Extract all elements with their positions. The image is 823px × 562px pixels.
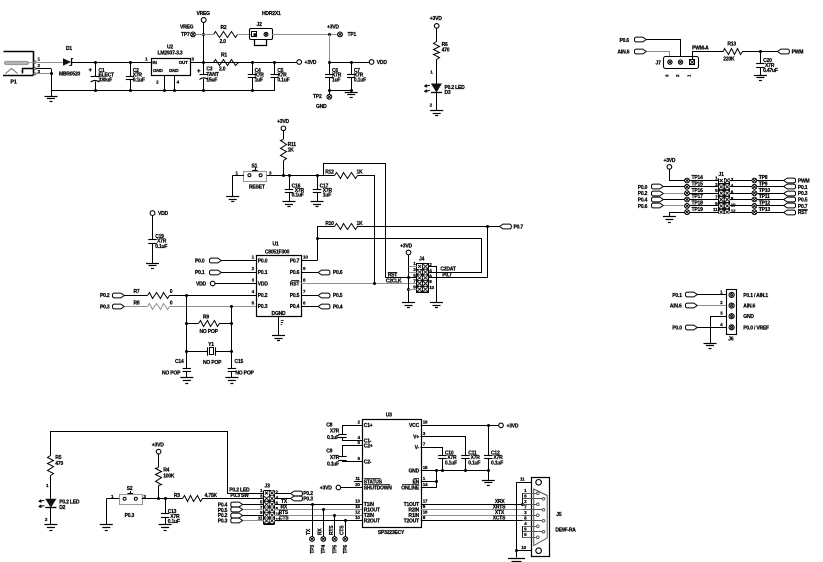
ground symbol D2 (44, 524, 57, 526)
svg-text:1uF: 1uF (323, 193, 331, 199)
svg-text:J5: J5 (556, 512, 562, 518)
svg-text:P0.1 / AIN.1: P0.1 / AIN.1 (743, 293, 768, 299)
svg-text:TP5: TP5 (332, 545, 338, 554)
capacitor C4 X7R 1uF (248, 62, 265, 90)
svg-text:P1: P1 (10, 80, 16, 86)
svg-text:0.1uF: 0.1uF (327, 435, 339, 441)
svg-text:J6: J6 (728, 337, 734, 343)
svg-text:D3: D3 (445, 90, 451, 96)
terminal P0.0 to J6 (672, 325, 726, 331)
node VDD to U1 pin3 (196, 281, 256, 287)
svg-text:J7: J7 (656, 61, 662, 67)
terminal block J6 (720, 289, 769, 342)
svg-text:TP1: TP1 (348, 32, 357, 38)
wire U3 V+ to C11 (421, 437, 466, 456)
capacitor C2 X7R 0.1uF (126, 62, 145, 90)
resistor R4 100K (156, 467, 175, 499)
wire CTS row J3 to U3 R2OUT (275, 516, 363, 523)
svg-text:0: 0 (170, 301, 173, 307)
svg-text:+3VD: +3VD (400, 244, 412, 250)
terminal P0.5 to J3 pin7 (218, 507, 264, 514)
svg-text:+3VD: +3VD (152, 442, 164, 448)
ground symbol under C7 (345, 92, 358, 94)
svg-text:X7R: X7R (330, 455, 340, 461)
ground rail of power section (51, 89, 275, 92)
terminal P0.1 to U1 pin2 (195, 270, 256, 276)
wire U3 GND rail (421, 469, 490, 472)
wire XTX row R1IN to J5 pin3 (421, 510, 537, 516)
svg-text:P0.4: P0.4 (333, 304, 343, 310)
terminal P0.3 from J3 pin4 (275, 496, 314, 502)
svg-text:C8051F300: C8051F300 (265, 249, 290, 255)
svg-text:TP6: TP6 (343, 545, 349, 554)
node +3VD for J4 (400, 244, 412, 303)
connector J5 DE9F-RA (532, 478, 577, 557)
svg-text:P0.0: P0.0 (672, 325, 682, 331)
svg-text:SHUTDOWN: SHUTDOWN (364, 485, 392, 491)
ground symbol J4 left (402, 302, 415, 304)
ground symbol S1 (226, 196, 239, 198)
svg-text:GND: GND (408, 469, 419, 475)
ground symbol D3 (430, 110, 443, 112)
wire J4 pin1 pin3 pin9 stubs (409, 267, 417, 290)
svg-text:RST: RST (798, 210, 808, 216)
test points TP14-TP19 (685, 175, 719, 215)
header J4 2x5 (413, 257, 434, 293)
svg-text:P0.7: P0.7 (290, 258, 300, 264)
svg-text:0.1uF: 0.1uF (491, 460, 503, 466)
svg-text:1uF: 1uF (332, 78, 340, 84)
svg-text:TP4: TP4 (321, 545, 327, 554)
svg-text:TP2: TP2 (313, 94, 322, 100)
terminal P0.7 (500, 224, 524, 231)
svg-text:0.1uF: 0.1uF (354, 78, 366, 84)
svg-text:X7R: X7R (330, 428, 340, 434)
svg-text:VDD: VDD (158, 211, 169, 217)
capacitor C17 X7R 1uF (311, 175, 333, 206)
resistor R3 4.75K (174, 493, 264, 502)
ground DGND of U1 (272, 317, 285, 341)
svg-text:MBR0520: MBR0520 (59, 72, 81, 78)
wire P1 pin1 to D1 (36, 62, 63, 64)
svg-text:P0.1: P0.1 (195, 270, 205, 276)
ground symbol J5 (508, 559, 525, 562)
node +3VD for R4 (152, 442, 164, 467)
wire U3 V- to C10 (421, 448, 443, 456)
ground symbol J1 (663, 213, 685, 223)
wire S2 to R3 node (142, 497, 183, 500)
test points TP8-TP13 (730, 175, 784, 215)
terminal P0.5 from U1 pin7 (301, 293, 343, 299)
svg-text:0: 0 (170, 289, 173, 295)
LED D2 P0.2 (39, 499, 80, 525)
terminal P0.0 to J1 (638, 184, 685, 191)
svg-text:P0.3: P0.3 (218, 519, 228, 525)
svg-text:TP3: TP3 (310, 545, 316, 554)
svg-text:11: 11 (520, 477, 525, 482)
resistor R1 2.0 (214, 53, 239, 73)
svg-text:2.0: 2.0 (220, 39, 227, 45)
regulator U2 LM2937-3.3 (145, 45, 194, 90)
svg-text:P0.3: P0.3 (125, 513, 135, 519)
terminal P0.6 to J1 (638, 203, 685, 210)
capacitor C19 X7R 0.1uF (148, 234, 167, 263)
IC U3 SP3223ECY (354, 413, 428, 536)
svg-text:NO POP: NO POP (200, 329, 219, 335)
svg-text:P0.4: P0.4 (290, 304, 300, 310)
capacitor C14 NO POP (162, 359, 193, 384)
test point TP5 RTS (329, 515, 339, 553)
svg-text:20: 20 (355, 482, 360, 487)
svg-text:P0.5: P0.5 (798, 198, 808, 204)
svg-text:U3: U3 (386, 413, 392, 419)
svg-text:P0.3: P0.3 (100, 304, 110, 310)
wire crystal left branch (186, 295, 188, 368)
svg-text:470: 470 (55, 461, 63, 467)
svg-text:14: 14 (423, 482, 428, 487)
svg-text:1K: 1K (288, 148, 295, 154)
ground symbol C20 (754, 75, 767, 77)
svg-text:VREG: VREG (197, 11, 211, 17)
svg-text:2.0: 2.0 (219, 67, 226, 73)
svg-text:J1: J1 (719, 172, 725, 178)
svg-text:330uF: 330uF (99, 78, 113, 84)
svg-text:13: 13 (355, 499, 360, 504)
svg-text:+3VD: +3VD (663, 158, 675, 164)
terminal P0.1 to J6 (672, 292, 726, 299)
svg-text:P0.6: P0.6 (638, 204, 648, 210)
connector P1 (power jack) (3, 51, 41, 85)
label P0.2 LED at J3 pin1 (227, 488, 264, 494)
resistor R12 1K (325, 169, 374, 283)
svg-text:10: 10 (731, 202, 736, 207)
svg-text:S1: S1 (252, 164, 258, 170)
header J1 2x6 (713, 172, 736, 214)
svg-text:PWM-A: PWM-A (692, 46, 709, 52)
svg-text:P0.5: P0.5 (290, 293, 300, 299)
svg-text:XCTS: XCTS (493, 516, 506, 522)
node VREG circle (197, 11, 211, 62)
svg-text:P0.4: P0.4 (638, 198, 648, 204)
svg-text:TP13: TP13 (759, 207, 771, 213)
capacitor C1 ELECT 330uF (89, 62, 115, 90)
svg-text:VDD: VDD (377, 60, 388, 66)
reset node wire (267, 174, 335, 177)
ground symbol C19 (146, 263, 159, 265)
svg-text:J3: J3 (265, 484, 271, 490)
svg-text:AIN.6: AIN.6 (670, 304, 682, 310)
terminal P0.4 from U1 pin6 (301, 304, 343, 310)
svg-text:0.1uF: 0.1uF (133, 78, 145, 84)
node +3VD output terminal (297, 60, 317, 66)
svg-text:VDD: VDD (258, 281, 269, 287)
svg-text:15uF: 15uF (206, 78, 217, 84)
svg-text:10: 10 (303, 255, 308, 260)
svg-text:C15: C15 (235, 359, 244, 365)
resistor R6 470 (430, 42, 450, 84)
ground symbol S2 (100, 524, 113, 526)
diode D1 MBR0520 (59, 46, 81, 78)
capacitor C15 NO POP (225, 359, 254, 384)
switch S1 RESET (233, 164, 273, 197)
svg-text:18: 18 (423, 465, 428, 470)
svg-text:P0.3: P0.3 (798, 191, 808, 197)
wire U3 VCC to +3VD (421, 423, 519, 429)
wire U1 RST pin8 to J4 pin7 C2CLK (301, 282, 417, 285)
header J3 2x6 (258, 484, 281, 525)
svg-text:D2: D2 (59, 505, 65, 511)
svg-text:NO POP: NO POP (162, 371, 181, 377)
svg-text:GND: GND (153, 68, 163, 73)
svg-text:+3VD: +3VD (305, 60, 317, 66)
svg-text:11: 11 (713, 207, 718, 212)
svg-text:CTS: CTS (340, 525, 346, 535)
svg-text:R1: R1 (221, 53, 227, 59)
wire reset loop to J4 pin5 / RST (324, 164, 417, 280)
resistor R8 0 (134, 301, 257, 310)
svg-text:0.1uF: 0.1uF (468, 460, 480, 466)
wire J5 unused pin ties (522, 493, 524, 537)
terminal P0.4 to J3 pin5 (218, 502, 264, 508)
svg-text:PWM: PWM (798, 179, 810, 185)
svg-text:+3VD: +3VD (507, 423, 519, 429)
svg-text:P0.2: P0.2 (258, 293, 268, 299)
svg-text:0.1uF: 0.1uF (155, 244, 167, 250)
IC U1 C8051F300 (252, 242, 309, 318)
terminal P0.6 PWM section (620, 37, 681, 56)
test point TP7 VREG (180, 25, 213, 39)
resistor R13 220K (723, 42, 777, 63)
ground symbol C12 (482, 480, 495, 482)
svg-text:J2: J2 (257, 22, 263, 28)
wire XRX row T1OUT to J5 pin2 (421, 499, 537, 506)
svg-text:P0.0: P0.0 (258, 258, 268, 264)
capacitor C9 X7R 0.1uF (326, 446, 362, 468)
svg-text:R2: R2 (221, 25, 227, 31)
header J7 jumper (656, 57, 699, 78)
svg-text:P0.3: P0.3 (258, 304, 268, 310)
svg-text:SP3223ECY: SP3223ECY (378, 530, 405, 536)
svg-text:RST: RST (388, 272, 398, 278)
wire D1 to U2 IN (72, 61, 151, 64)
capacitor C16 X7R 0.1uF (283, 175, 305, 206)
test point TP4 RX (318, 510, 328, 554)
svg-text:10: 10 (355, 515, 360, 520)
svg-text:0.1uF: 0.1uF (327, 461, 339, 467)
capacitor C7 X7R 0.1uF (328, 62, 366, 92)
svg-text:R7: R7 (134, 289, 140, 295)
J5 pins and stubs (522, 488, 545, 538)
node VDD terminal (369, 60, 387, 66)
node +3VD to U3 SHUTDOWN (320, 485, 362, 491)
svg-text:16: 16 (423, 510, 428, 515)
svg-text:P0.7: P0.7 (442, 273, 452, 279)
wire TP1 node down to VDD rail (329, 34, 331, 62)
terminals PWM P0.1 P0.3 P0.5 P0.7 RST at J1 right (784, 178, 810, 216)
terminal P0.2 to J1 (638, 191, 685, 197)
node +3VD for reset pullup (277, 119, 289, 139)
svg-text:R8: R8 (134, 301, 140, 307)
svg-text:R3: R3 (174, 493, 180, 499)
svg-text:TP16: TP16 (692, 188, 704, 194)
svg-text:11: 11 (258, 516, 263, 521)
svg-text:10: 10 (521, 545, 526, 550)
svg-text:NO POP: NO POP (203, 360, 222, 366)
svg-text:470: 470 (442, 48, 450, 54)
svg-text:R9: R9 (203, 314, 209, 320)
capacitor C3 TANT 15uF (197, 62, 219, 90)
svg-text:D1: D1 (66, 46, 72, 52)
svg-text:TP7: TP7 (181, 32, 190, 38)
svg-text:R13: R13 (727, 42, 736, 48)
svg-text:100K: 100K (163, 473, 175, 479)
svg-text:P0.6: P0.6 (333, 270, 343, 276)
svg-text:+3VD: +3VD (277, 119, 289, 125)
node VDD circle for C19 (150, 211, 168, 240)
svg-text:PWM: PWM (792, 49, 804, 55)
terminal AIN.6 to J6 (670, 303, 727, 310)
wire P0.7 terminal branch to J4 pin6 (429, 227, 488, 278)
svg-text:P0.0 / VREF: P0.0 / VREF (743, 325, 769, 331)
resistor R11 1K (281, 140, 297, 176)
svg-text:+3VD: +3VD (430, 16, 442, 22)
terminal P0.6 from U1 pin9 (301, 270, 343, 276)
capacitor C6 X7R 1uF (325, 62, 342, 95)
terminal P0.3 to J3 pin11 (218, 518, 264, 525)
svg-text:P0.0: P0.0 (638, 185, 648, 191)
svg-text:TP10: TP10 (759, 188, 771, 194)
wire J7 pin1 to R13 PWM-A (692, 46, 723, 60)
svg-text:NO POP: NO POP (235, 371, 254, 377)
node +3VD for R6 (430, 16, 442, 42)
wire RX row J3 to U3 R1OUT (275, 505, 363, 511)
terminal P0.2 from J3 pin2 (275, 491, 314, 497)
terminal AIN.6 PWM section (618, 49, 670, 56)
svg-text:T2OUT: T2OUT (404, 519, 420, 525)
svg-text:P0.7: P0.7 (798, 204, 808, 210)
svg-text:VCC: VCC (409, 423, 420, 429)
capacitor C8 X7R 0.1uF (326, 422, 362, 441)
svg-text:AIN.6: AIN.6 (618, 49, 630, 55)
wire RTS row J3 to U3 T2IN (275, 510, 363, 517)
svg-text:P0.1: P0.1 (258, 270, 268, 276)
svg-text:10: 10 (429, 285, 434, 290)
capacitor C5 X7R 0.1uF (271, 62, 290, 90)
jumper J2 HDR2X1 (250, 11, 338, 46)
svg-text:0.47uF: 0.47uF (763, 68, 778, 74)
svg-text:+3VD: +3VD (327, 24, 339, 30)
wire XRTS row R2IN to J5 pin7 (421, 505, 543, 511)
svg-text:J4: J4 (419, 257, 425, 263)
wire J5 shell ground rail (515, 477, 531, 558)
node +3VD for J1 (663, 158, 684, 181)
svg-text:ONLINE: ONLINE (401, 485, 420, 491)
svg-text:RTS: RTS (329, 525, 335, 535)
terminal PWM (778, 49, 804, 55)
wire XCTS row T2OUT to J5 pin8 (421, 516, 543, 522)
svg-text:+3VD: +3VD (320, 486, 332, 492)
test point TP6 CTS (340, 521, 350, 554)
wire U1 P0.7 pin10 up (302, 260, 318, 262)
svg-text:19: 19 (423, 420, 428, 425)
ground symbol power rail (45, 90, 58, 102)
svg-text:P0.3: P0.3 (303, 496, 313, 502)
svg-text:LM2937-3.3: LM2937-3.3 (158, 51, 183, 57)
svg-text:C14: C14 (175, 359, 184, 365)
svg-text:U1: U1 (273, 242, 279, 248)
capacitor C12 X7R 0.1uF (484, 425, 503, 480)
svg-text:0.1uF: 0.1uF (277, 78, 289, 84)
svg-text:P0.0: P0.0 (195, 259, 205, 265)
svg-text:OUT: OUT (179, 60, 188, 65)
wire U2 OUT to +3VD (190, 61, 297, 64)
svg-text:P0.1: P0.1 (798, 185, 808, 191)
label RST at J4 (388, 272, 398, 278)
crystal Y1 NO POP (185, 342, 233, 366)
svg-text:V-: V- (415, 445, 420, 451)
svg-text:RST: RST (290, 281, 300, 287)
svg-text:VDD: VDD (196, 282, 207, 288)
svg-text:1uF: 1uF (255, 78, 263, 84)
terminal P0.3 to R8 (100, 304, 147, 310)
svg-text:HDR2X1: HDR2X1 (262, 11, 281, 17)
resistor R2 2.0 (214, 25, 252, 45)
terminal P0.2 to J3 pin9 (218, 513, 264, 519)
wire J3 pin1 LED loop (51, 432, 228, 494)
svg-text:C2CLK: C2CLK (386, 279, 402, 285)
test point TP1 +3VD (327, 24, 356, 38)
wire crystal right branch (231, 306, 233, 368)
svg-text:0.1uF: 0.1uF (292, 193, 304, 199)
capacitor C13 X7R 0.1uF (159, 499, 180, 531)
svg-text:V+: V+ (413, 434, 419, 440)
svg-text:C2-: C2- (364, 460, 372, 466)
svg-text:DGND: DGND (272, 311, 287, 317)
svg-text:C2+: C2+ (364, 444, 373, 450)
svg-text:R2OUT: R2OUT (364, 519, 380, 525)
svg-text:AIN.6: AIN.6 (743, 304, 755, 310)
wire J6 pin3 GND (704, 317, 727, 349)
wire J4 pin2 to ground (429, 267, 444, 308)
svg-text:P0.3 SW: P0.3 SW (230, 493, 249, 499)
svg-text:12: 12 (355, 510, 360, 515)
wire TX row J3 to U3 T1IN (275, 499, 363, 506)
wire U3 EN ONLINE to GND (421, 471, 438, 488)
wire C6 C7 VDD top rail (328, 61, 369, 64)
capacitor C11 X7R 0.1uF (461, 450, 480, 471)
svg-text:P0.2: P0.2 (638, 191, 648, 197)
svg-text:C1+: C1+ (364, 423, 373, 429)
svg-text:P0.1: P0.1 (672, 293, 682, 299)
test point TP2 GND (313, 94, 332, 110)
terminal P0.2 to R7 (100, 293, 147, 299)
wire P1 pin2/pin3 to ground (36, 69, 53, 91)
terminal P0.4 to J1 (638, 197, 685, 203)
svg-text:C9: C9 (326, 449, 332, 455)
svg-text:GND: GND (743, 314, 754, 320)
svg-text:S2: S2 (127, 486, 133, 492)
capacitor C10 X7R 0.1uF (438, 450, 457, 471)
svg-text:P0.6: P0.6 (620, 38, 630, 44)
LED D3 P0.2 (424, 84, 465, 111)
terminal P0.0 to U1 pin1 (195, 258, 256, 265)
resistor R9 NO POP (185, 314, 233, 335)
resistor R7 0 (134, 289, 257, 298)
switch S2 P0.3 (106, 486, 146, 525)
svg-text:GND: GND (169, 68, 179, 73)
svg-text:1K: 1K (357, 221, 364, 227)
svg-text:1K: 1K (357, 169, 364, 175)
